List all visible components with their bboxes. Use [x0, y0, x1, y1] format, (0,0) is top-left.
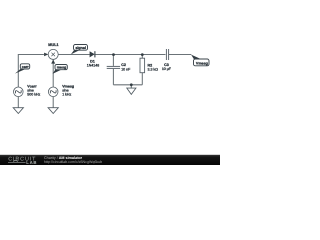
svg-text:500 kHz: 500 kHz	[27, 92, 40, 96]
svg-text:1N4148: 1N4148	[87, 64, 99, 68]
svg-text:LAB: LAB	[26, 160, 37, 165]
svg-text:http://circuitlab.com/c/x5NcgW: http://circuitlab.com/c/x5NcgWq6kub	[44, 160, 102, 164]
svg-text:10 nF: 10 nF	[121, 67, 131, 71]
svg-text:Vmesg: Vmesg	[196, 61, 208, 65]
svg-text:10 µF: 10 µF	[162, 67, 172, 71]
svg-text:1 kHz: 1 kHz	[62, 92, 71, 96]
svg-text:3.3 kΩ: 3.3 kΩ	[148, 67, 159, 71]
svg-text:MUL1: MUL1	[48, 43, 58, 47]
svg-text:signal: signal	[75, 46, 86, 50]
svg-text:mesg: mesg	[57, 66, 67, 70]
svg-text:carr: carr	[22, 65, 29, 69]
